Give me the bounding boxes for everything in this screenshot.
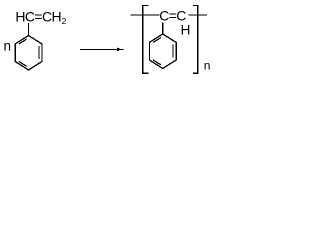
right bracket ] [193,5,198,73]
svg-text:n: n [4,39,12,54]
double bond inner line top-left edge (left ring) [19,39,27,44]
double bond inner line top-left edge (right ring) [153,38,161,43]
svg-text:2: 2 [62,16,67,26]
benzene ring (right, hexagon) [149,34,176,69]
svg-text:n: n [204,59,211,73]
double bond inner line right edge (right ring) [172,45,174,58]
double bond inner line bottom-left edge (right ring) [153,60,161,65]
svg-text:C=C: C=C [159,8,186,24]
svg-text:HC=CH: HC=CH [15,8,61,24]
bond from C to right bracket [189,14,207,16]
arrowhead [117,48,122,52]
benzene ring (left, hexagon) [15,36,42,71]
double bond inner line right edge (left ring) [38,46,40,59]
bond entering left bracket [131,14,160,16]
bond C-phenyl (left vertical bond) [27,23,29,36]
double bond inner line bottom-left edge (left ring) [19,61,27,66]
left bracket [ [143,5,149,73]
svg-text:H: H [181,22,191,37]
reaction arrow [80,48,123,50]
bond C-phenyl (right vertical bond) [162,23,164,35]
